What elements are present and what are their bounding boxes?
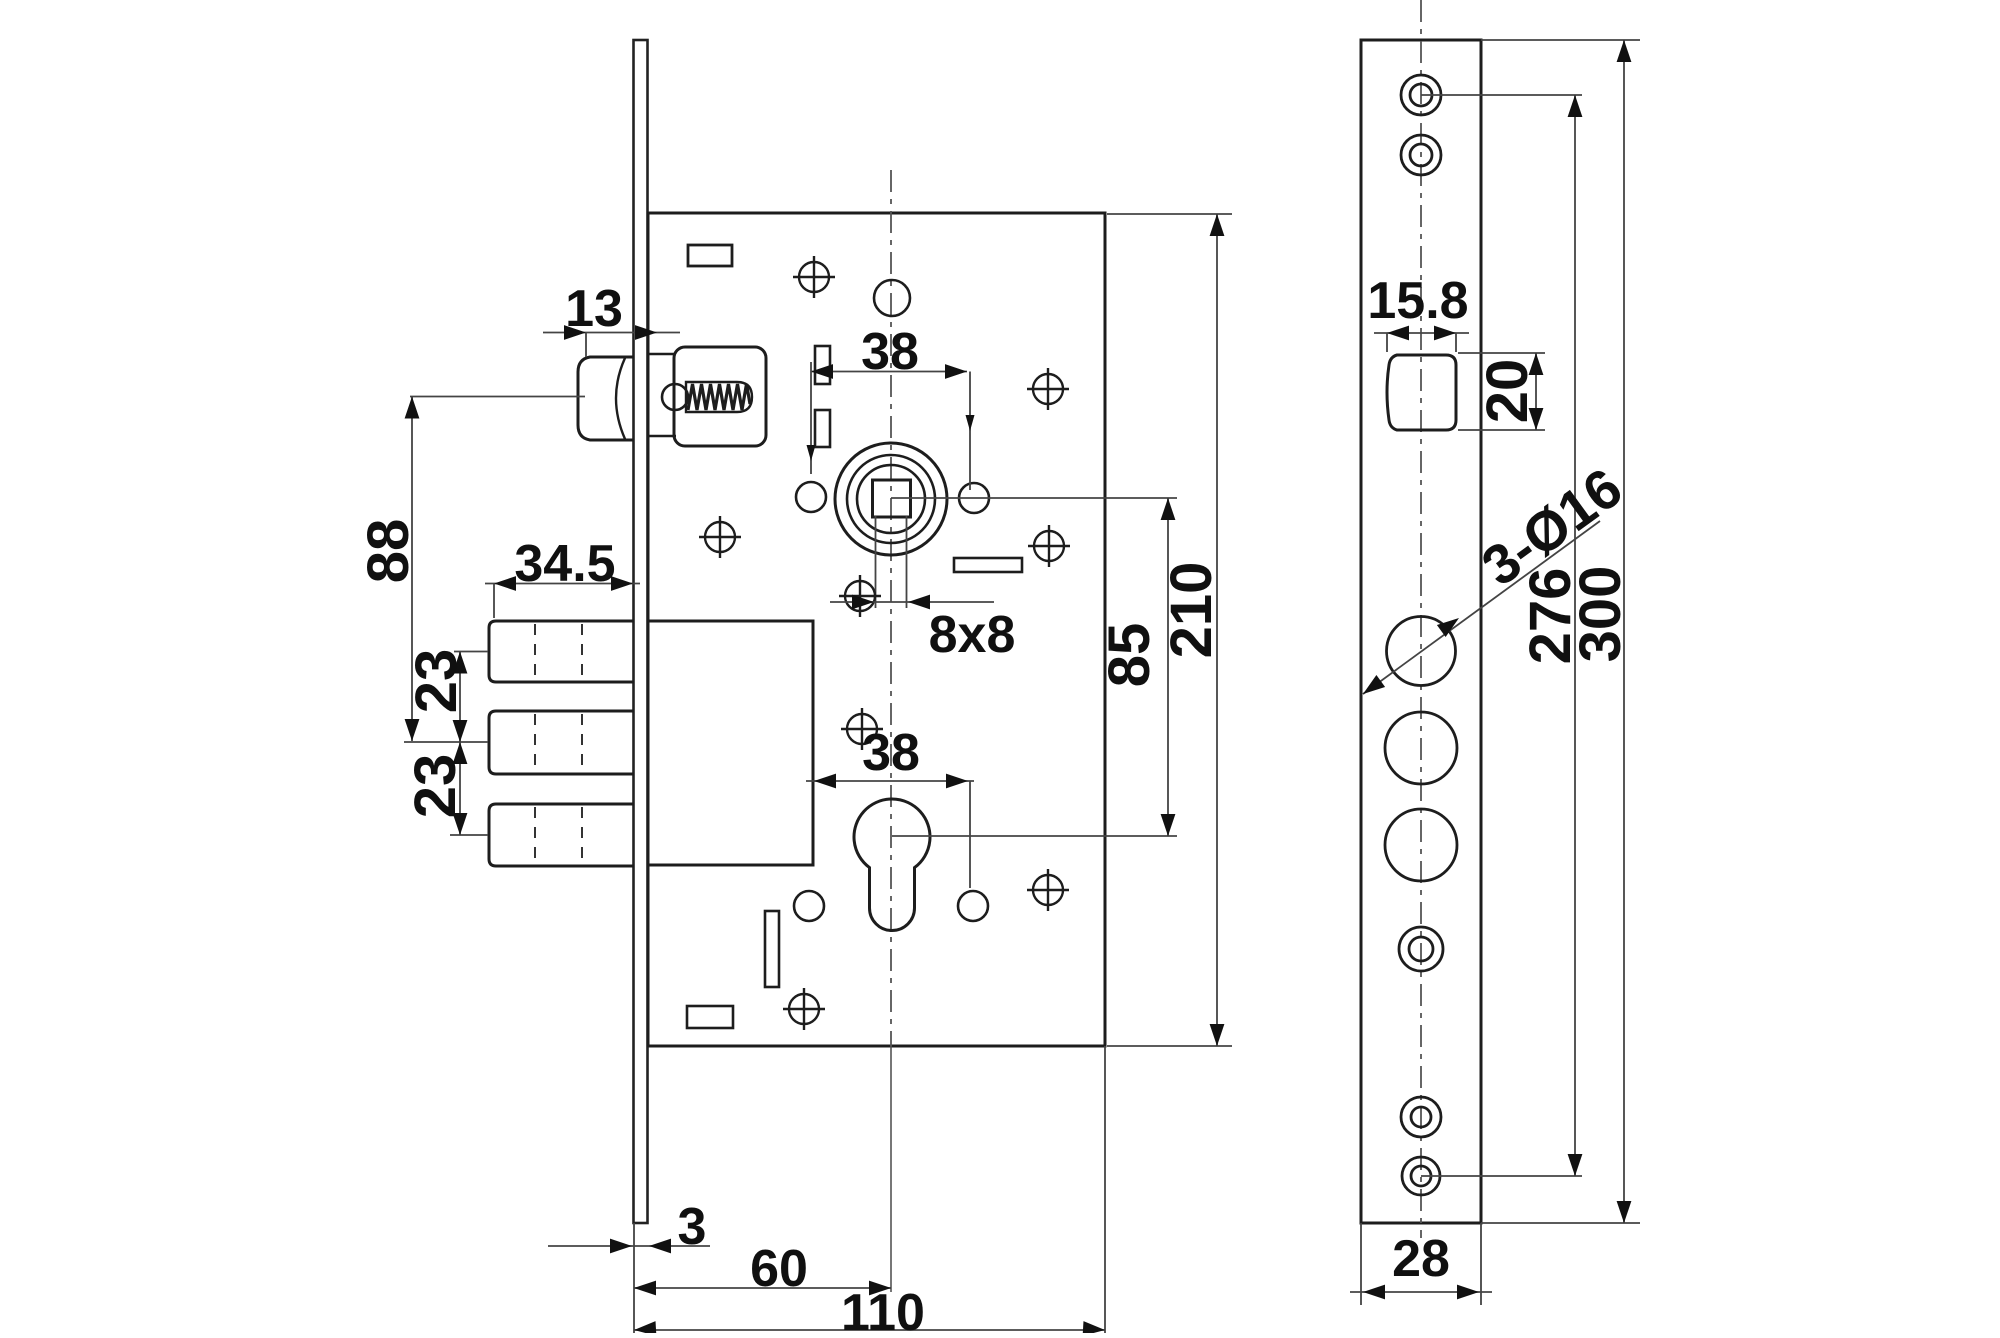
deadbolt carrier block [648,621,813,865]
svg-text:23: 23 [403,754,468,819]
slot top-left [688,245,732,266]
dimension 38 bottom right extension [969,781,971,888]
dimension 60 line [634,1287,891,1289]
handle fixing hole left [796,482,826,512]
deadbolt 1 [489,621,634,682]
dimension 34.5 line [485,583,640,585]
dimension 38 top left extension [810,362,812,474]
slot horizontal bottom-left [687,1006,733,1028]
faceplate front view outline [1361,40,1481,1223]
dimension 300 line [1623,40,1625,1223]
latch body [674,347,766,446]
svg-text:13: 13 [565,280,623,338]
deadbolt 3 [489,804,634,866]
svg-text:20: 20 [1475,359,1540,424]
euro cylinder hole [854,799,930,931]
screw boss F above lower dim [841,708,883,750]
dimension 13 extension line [585,333,587,358]
slot vertical lower-left [765,911,779,987]
screw boss D right of hub [1028,525,1070,567]
spindle hub inner circle [857,465,925,533]
screw hole bottom 2 [1402,1157,1440,1195]
lock case body outline [648,213,1105,1046]
dimension 8x8 line [830,601,994,603]
dimension 23 second line [459,742,461,835]
dimension 28 line [1350,1291,1492,1293]
screw hole middle [1399,927,1443,971]
svg-text:210: 210 [1159,562,1224,659]
dimension 20 line [1535,353,1537,430]
dimension 300 extension lines [1481,40,1640,1223]
svg-text:88: 88 [356,519,421,584]
dimension 276 line [1574,95,1576,1176]
screw boss A top-left [793,256,835,298]
svg-text:8x8: 8x8 [929,606,1016,664]
handle fixing hole right [959,483,989,513]
hub center extension line [891,497,1177,499]
cylinder fixing hole right [958,891,988,921]
screw hole top 1 [1401,75,1441,115]
screw hole bottom 1 [1401,1097,1441,1137]
svg-text:3: 3 [678,1198,707,1256]
dimension 88 line [411,397,413,742]
dimension 210 bottom extension [1107,1045,1232,1047]
spindle square extension lines [876,516,907,608]
deadbolt 2 [489,711,634,774]
latch cutout [1387,355,1456,430]
screw boss G right lower [1027,869,1069,911]
centerline vertical (left view) [890,170,892,1046]
svg-text:300: 300 [1568,566,1633,663]
deadbolt 1 dashed lines [535,624,582,679]
dimension 38 top line [811,371,967,373]
svg-text:85: 85 [1097,623,1162,688]
dimension 34.5 extension line [493,584,495,619]
big hole 1 [1387,617,1456,686]
latch head bevel line [616,358,625,439]
faceplate side strip (left view) [634,40,648,1223]
screw hole top 2 [1401,135,1441,175]
svg-text:28: 28 [1392,1230,1450,1288]
dimension 110 line [634,1329,1105,1331]
handle hole upper circle [874,280,910,316]
dimension 20 extension lines [1458,353,1545,430]
latch pin circle [662,384,688,410]
svg-text:23: 23 [404,649,469,714]
svg-text:60: 60 [750,1240,808,1298]
latch spring capsule [686,382,752,412]
faceplate centerline [1420,0,1422,1238]
big hole 3 [1385,809,1457,881]
dimension 28 extension lines [1361,1223,1481,1305]
latch spring zigzag [688,384,750,410]
dimension 3 line [548,1245,710,1247]
spindle hub middle circle [847,455,935,543]
cylinder fixing hole left [794,891,824,921]
centerline extension below case [890,1046,892,1292]
dimension 23 extension lines [404,652,488,836]
latch bolt head [578,357,634,440]
slot small lower vertical [815,410,830,447]
dimension 38 top right extension [969,372,971,491]
dimension 38 bottom line [806,780,974,782]
spindle square 8x8 [873,480,911,517]
svg-text:15.8: 15.8 [1367,272,1468,330]
bottom extension line at case right [1104,1046,1106,1333]
svg-text:110: 110 [841,1284,925,1333]
svg-text:38: 38 [861,323,919,381]
dimension 15.8 extension lines [1387,333,1456,352]
latch stem top line [648,353,676,356]
dimension 85 line [1167,498,1169,836]
screw boss H bottom-left [783,988,825,1030]
latch stem bottom line [648,435,676,438]
screw boss C right of top dim [1027,368,1069,410]
dimension 13 line [543,332,680,334]
slot right of hub [954,558,1022,572]
dimension 15.8 line [1374,332,1469,334]
slot small upper vertical [815,346,830,384]
spindle hub outer circle [835,443,947,555]
dimension 210 top extension [1107,213,1232,215]
big hole 2 [1385,712,1457,784]
dimension 88 extension line top [410,396,585,398]
svg-text:38: 38 [862,724,920,782]
screw boss E below hub [839,575,881,617]
dimension 276 extension lines [1421,95,1582,1176]
dimension 23 first line [459,652,461,743]
screw boss B left-middle [699,516,741,558]
svg-text:34.5: 34.5 [514,535,615,593]
deadbolt 2 dashed lines [535,714,582,771]
cylinder center extension line [892,835,1177,837]
bottom extension line at faceplate [633,1223,635,1333]
leader 3-D16 line [1363,521,1600,694]
dimension 210 line [1216,214,1218,1046]
deadbolt 3 dashed lines [535,807,582,863]
